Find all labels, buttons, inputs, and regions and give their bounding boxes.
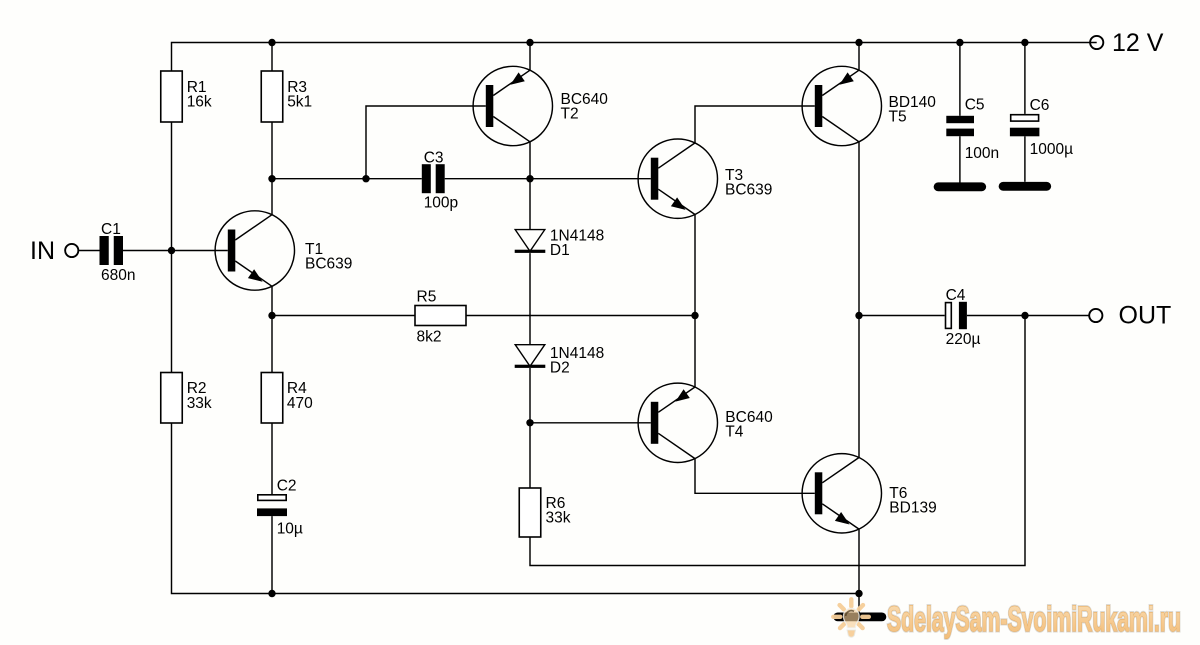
svg-text:BC639: BC639 — [725, 182, 772, 199]
junction: T1 emitter / R5 / R4 node — [268, 312, 275, 319]
svg-text:T5: T5 — [889, 109, 907, 126]
wire: ground rail to ground symbol — [858, 594, 860, 614]
capacitor C1 — [100, 236, 124, 265]
wire: node to D1 anode — [529, 179, 531, 230]
svg-text:33k: 33k — [546, 510, 571, 527]
svg-text:C1: C1 — [101, 221, 121, 238]
capacitor C6 (electrolytic) — [1010, 115, 1040, 137]
wire: output node to C4 — [859, 315, 945, 317]
svg-text:D1: D1 — [550, 242, 570, 259]
wire: T3 collector to T5 base — [695, 106, 815, 143]
diode D1 (1N4148) — [515, 230, 546, 253]
wire: top rail to C5 — [959, 43, 961, 116]
terminal 12V — [1090, 36, 1103, 49]
svg-text:10µ: 10µ — [277, 521, 303, 538]
wire: node A to T1 collector — [271, 179, 273, 215]
junction: T6 emitter at ground rail — [855, 590, 862, 597]
wire: top rail to T5 emitter — [858, 43, 860, 71]
svg-text:BC639: BC639 — [305, 256, 352, 273]
svg-text:100p: 100p — [424, 194, 458, 211]
ground bar under C5 — [934, 182, 987, 191]
label D1 1N4148 — [550, 228, 604, 260]
svg-text:12 V: 12 V — [1112, 29, 1164, 57]
transistor T2 (BC640 PNP) — [473, 66, 552, 145]
wire: T3 emitter down — [694, 215, 696, 316]
wire: D1 cathode to D2 anode (crosses R5 line) — [529, 253, 531, 345]
label T3 BC639 — [725, 167, 772, 199]
wire: C2 to bottom rail — [271, 516, 273, 593]
capacitor C5 — [946, 116, 974, 136]
label R4 470 — [287, 380, 313, 412]
wire: C5 to ground bar — [959, 136, 961, 183]
label C1 680n — [101, 221, 135, 284]
label C5 100n — [965, 97, 999, 162]
label R5 8k2 — [417, 289, 442, 346]
wire: node to R6 — [529, 423, 531, 488]
svg-text:5k1: 5k1 — [287, 94, 312, 111]
wire: C3 to T2 collector node — [445, 178, 530, 180]
watermark text SdelaySam-SvoimiRukami.ru — [887, 600, 1181, 639]
svg-text:T2: T2 — [561, 106, 579, 123]
svg-text:C3: C3 — [424, 150, 444, 167]
label C2 10µ — [277, 478, 303, 538]
label R2 33k — [187, 380, 212, 412]
svg-text:D2: D2 — [550, 360, 570, 377]
resistor R3 — [261, 71, 283, 122]
wire: R3 to node A — [271, 122, 273, 179]
transistor T6 (BD139 NPN) — [802, 454, 881, 533]
junction: D2 / T4 base / R6 node — [526, 419, 533, 426]
watermark bulb icon — [833, 599, 869, 637]
label T6 BD139 — [889, 485, 936, 517]
transistor T5 (BD140 PNP) — [802, 66, 881, 145]
wire: T4 collector to T6 base — [695, 459, 815, 494]
svg-text:8k2: 8k2 — [417, 329, 442, 346]
label T5 BD140 — [889, 94, 937, 126]
ground — [833, 613, 886, 622]
resistor R6 — [519, 488, 541, 537]
svg-text:OUT: OUT — [1119, 302, 1172, 330]
label 12 V — [1112, 29, 1164, 57]
junction: T2 emitter at top rail — [526, 39, 533, 46]
svg-text:16k: 16k — [187, 94, 212, 111]
wire: T1 emitter down — [271, 286, 273, 315]
junction node A: R3 / T1 collector / C3 line — [268, 175, 275, 182]
capacitor C3 — [422, 164, 445, 193]
label IN — [30, 237, 55, 265]
wire: C4 to OUT terminal — [967, 315, 1090, 317]
wire: top rail to C6 — [1024, 43, 1026, 114]
label T1 BC639 — [305, 241, 352, 273]
wire: top rail to R3 — [271, 43, 273, 72]
wire: emitter node to R4 — [271, 316, 273, 373]
wire: R4 to C2 — [271, 423, 273, 494]
wire: IN terminal to C1 — [78, 250, 99, 252]
junction: R3 at top rail — [268, 39, 275, 46]
junction: bootstrap tap — [1021, 312, 1028, 319]
junction: output node — [855, 312, 862, 319]
label D2 1N4148 — [550, 345, 604, 377]
transistor T1 (BC639 NPN) — [215, 211, 294, 290]
svg-text:C5: C5 — [965, 97, 985, 114]
svg-text:IN: IN — [30, 237, 55, 265]
svg-text:T4: T4 — [725, 424, 743, 441]
wire: node A to C3 — [272, 178, 422, 180]
label R6 33k — [546, 495, 571, 527]
label R3 5k1 — [287, 79, 312, 111]
svg-text:C2: C2 — [277, 478, 297, 495]
svg-text:1000µ: 1000µ — [1030, 141, 1073, 158]
wire: top rail to T2 emitter — [529, 43, 531, 71]
label OUT — [1119, 302, 1172, 330]
wire: node to T4 base — [530, 422, 651, 424]
terminal IN — [65, 244, 78, 257]
junction: T3 emitter / T4 emitter / R5 node — [691, 312, 698, 319]
wire: +12V top rail / left vertical / bottom ground rail — [172, 43, 1097, 594]
ground bar under C6 — [999, 182, 1052, 191]
svg-text:BD139: BD139 — [889, 500, 936, 517]
wire: T4 emitter up to driver node — [694, 316, 696, 388]
junction: C5 at top rail — [956, 39, 963, 46]
capacitor C4 (electrolytic) — [946, 302, 967, 329]
resistor R4 — [261, 373, 283, 424]
label C4 220µ — [946, 287, 981, 348]
resistor R2 — [161, 373, 183, 424]
wire: T5 collector to output node — [858, 142, 860, 316]
junction: C2 at bottom rail — [268, 590, 275, 597]
svg-text:R5: R5 — [417, 289, 437, 306]
wire: C1 to T1 base — [123, 250, 228, 252]
junction: C1 / R1-R2 node — [168, 247, 175, 254]
wire: T1 emitter node to R5 — [272, 315, 415, 317]
svg-text:100n: 100n — [965, 145, 999, 162]
wire: T6 collector to output node — [858, 316, 860, 458]
wire: node to T3 base — [530, 178, 651, 180]
wire: R6 to bootstrap corner — [530, 316, 1025, 566]
junction: T5 emitter at top rail — [855, 39, 862, 46]
label T4 BC640 — [725, 409, 773, 441]
label C6 1000µ — [1030, 97, 1073, 158]
junction: T2 collector / C3 / D1 / T3 base — [526, 175, 533, 182]
label R1 16k — [187, 79, 212, 111]
capacitor C2 (electrolytic) — [257, 495, 287, 516]
label C3 100p — [424, 150, 458, 212]
svg-text:33k: 33k — [187, 395, 212, 412]
resistor R1 — [161, 71, 183, 122]
label T2 BC640 — [561, 91, 609, 123]
wire: D2 cathode to T4 base node — [529, 368, 531, 423]
wire: T2 collector down — [529, 142, 531, 179]
wire: R5 to driver node — [466, 315, 695, 317]
wire: T2 base branch up — [366, 106, 486, 179]
transistor T3 (BC639 NPN) — [638, 139, 717, 218]
svg-text:SdelaySam-SvoimiRukami.ru: SdelaySam-SvoimiRukami.ru — [887, 600, 1181, 639]
transistor T4 (BC640 PNP) — [638, 383, 717, 462]
svg-text:C4: C4 — [946, 287, 966, 304]
svg-text:C6: C6 — [1030, 97, 1050, 114]
resistor R5 — [415, 306, 466, 326]
wire: C6 to ground bar — [1024, 136, 1026, 182]
svg-text:220µ: 220µ — [946, 331, 981, 348]
junction: T2 base branch — [362, 175, 369, 182]
svg-text:470: 470 — [287, 395, 313, 412]
terminal OUT — [1089, 309, 1102, 322]
wire: T6 emitter to ground rail — [858, 529, 860, 593]
svg-text:680n: 680n — [101, 267, 135, 284]
diode D2 (1N4148) — [515, 345, 546, 368]
junction: C6 at top rail — [1021, 39, 1028, 46]
